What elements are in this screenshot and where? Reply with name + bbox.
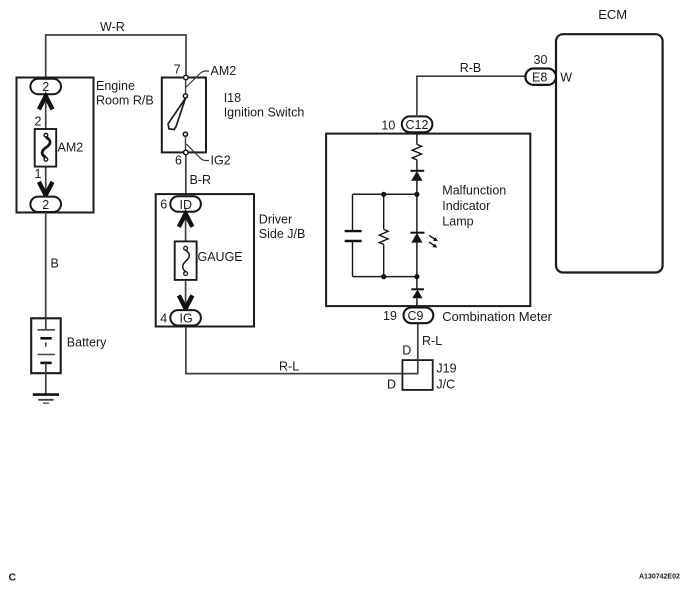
junction block Driver Side J/B <box>156 194 254 326</box>
svg-text:Malfunction: Malfunction <box>442 183 506 197</box>
meter main vertical wire <box>416 133 418 307</box>
svg-text:6: 6 <box>160 198 167 212</box>
connector C9 pin 19 <box>383 307 433 323</box>
label Engine Room R/B <box>96 79 154 108</box>
resistor R1 (series) <box>412 144 421 159</box>
switch lower contact <box>183 132 187 136</box>
svg-text:Side J/B: Side J/B <box>259 227 306 241</box>
figure index C <box>9 572 17 584</box>
svg-text:A130742E02: A130742E02 <box>639 574 680 581</box>
svg-text:30: 30 <box>534 53 548 67</box>
svg-text:Lamp: Lamp <box>442 215 473 229</box>
wire R-L from J/B to J/C <box>186 327 418 374</box>
svg-text:C12: C12 <box>406 118 429 132</box>
svg-text:C9: C9 <box>408 309 424 323</box>
svg-text:GAUGE: GAUGE <box>198 250 243 264</box>
connector E8 pin 30 <box>525 53 556 85</box>
junction connector J19 J/C <box>402 360 432 390</box>
svg-text:R-L: R-L <box>422 334 442 348</box>
connector C12 pin 10 <box>381 116 432 132</box>
svg-text:Ignition Switch: Ignition Switch <box>224 105 305 119</box>
junction block Engine Room R/B <box>17 78 94 213</box>
wire B battery feed <box>45 212 47 318</box>
svg-text:7: 7 <box>174 63 181 77</box>
label B-R <box>190 173 212 187</box>
label I18 Ignition Switch <box>224 91 305 120</box>
svg-text:AM2: AM2 <box>58 141 84 155</box>
connector IG pin 4 <box>160 310 201 325</box>
wire pin7 to pivot <box>185 80 187 94</box>
label W <box>560 70 572 84</box>
wire bottom of parallel branches <box>353 276 417 278</box>
svg-text:J19: J19 <box>436 362 456 376</box>
svg-text:4: 4 <box>160 311 167 325</box>
battery <box>31 318 61 373</box>
figure code A130742E02 <box>639 574 680 581</box>
diode D1 <box>410 171 424 181</box>
wire R-L meter to J/C <box>417 323 419 374</box>
fuse GAUGE <box>175 241 197 280</box>
svg-text:I18: I18 <box>224 91 241 105</box>
leader AM2 terminal <box>186 64 236 87</box>
wire node to left branch top <box>353 193 417 195</box>
label GAUGE fuse <box>198 250 243 264</box>
connector ID pin 6 <box>160 196 201 212</box>
label J19 J/C <box>436 362 456 392</box>
node junction resistor branch bottom <box>381 274 386 279</box>
label Driver Side J/B <box>259 213 306 242</box>
pin 6 of ignition switch <box>175 150 188 168</box>
svg-text:IG2: IG2 <box>211 153 231 167</box>
ground <box>33 395 59 404</box>
node junction top <box>414 192 419 197</box>
wire through Engine Room R/B <box>45 94 47 196</box>
label B <box>51 257 59 271</box>
LED lamp <box>410 233 424 243</box>
svg-text:1: 1 <box>35 167 42 181</box>
svg-text:AM2: AM2 <box>211 64 237 78</box>
svg-text:R-B: R-B <box>460 61 482 75</box>
switch blade <box>168 98 185 129</box>
svg-text:19: 19 <box>383 309 397 323</box>
svg-text:Battery: Battery <box>67 336 107 350</box>
pin 2 label <box>35 115 42 129</box>
wire lower contact to pin 6 <box>185 136 187 150</box>
svg-text:D: D <box>402 344 411 358</box>
label R-L vertical <box>422 334 442 348</box>
svg-text:D: D <box>387 377 396 391</box>
svg-text:ECM: ECM <box>598 7 627 22</box>
node junction bottom <box>414 274 419 279</box>
arrow up below connector <box>39 96 53 109</box>
pin D top label <box>402 344 411 358</box>
label AM2 fuse <box>58 141 84 155</box>
svg-text:Driver: Driver <box>259 213 292 227</box>
combination meter box <box>326 134 530 307</box>
ECM box <box>556 34 663 272</box>
node junction resistor branch top <box>381 192 386 197</box>
label W-R <box>100 20 125 34</box>
label Battery <box>67 336 107 350</box>
svg-text:J/C: J/C <box>436 377 455 391</box>
svg-text:2: 2 <box>35 115 42 129</box>
svg-text:Room R/B: Room R/B <box>96 94 154 108</box>
connector 2 (bottom of Engine Room R/B) <box>30 197 61 212</box>
svg-text:W: W <box>560 70 572 84</box>
svg-text:R-L: R-L <box>279 359 299 373</box>
pin D left label <box>387 377 396 391</box>
wire R-B meter to ECM <box>417 76 526 117</box>
svg-text:B: B <box>51 257 59 271</box>
wire battery to ground <box>45 373 47 394</box>
label Combination Meter <box>442 309 552 324</box>
svg-text:B-R: B-R <box>190 173 212 187</box>
pin 7 of ignition switch <box>174 63 188 80</box>
svg-text:IG: IG <box>180 311 193 325</box>
arrow down above IG <box>179 295 193 308</box>
svg-text:C: C <box>9 572 17 584</box>
pin 1 label <box>35 167 42 181</box>
resistor R2 (parallel) <box>379 194 388 276</box>
svg-text:W-R: W-R <box>100 20 125 34</box>
label Malfunction Indicator Lamp <box>442 183 506 228</box>
svg-text:Indicator: Indicator <box>442 199 490 213</box>
label R-B <box>460 61 482 75</box>
wire B-R ignition switch to J/B <box>185 155 187 194</box>
connector 2 (top of Engine Room R/B) <box>30 79 61 94</box>
wire W-R top run <box>46 35 186 78</box>
svg-text:Combination Meter: Combination Meter <box>442 309 552 324</box>
wire through Driver Side J/B <box>185 212 187 310</box>
capacitor C1 <box>345 194 362 276</box>
switch pivot contact <box>183 94 187 98</box>
arrow down above bottom connector <box>39 182 53 195</box>
svg-text:6: 6 <box>175 154 182 168</box>
leader IG2 terminal <box>186 144 230 167</box>
arrow up below ID <box>179 214 193 227</box>
switch I18 ignition switch box <box>162 78 206 153</box>
label R-L horizontal <box>279 359 299 373</box>
fuse AM2 <box>35 129 57 167</box>
label ECM <box>598 7 627 22</box>
LED light arrows <box>429 235 438 247</box>
svg-text:2: 2 <box>42 198 49 212</box>
svg-text:Engine: Engine <box>96 79 135 93</box>
diode D2 <box>411 289 424 298</box>
svg-text:E8: E8 <box>532 70 547 84</box>
svg-text:10: 10 <box>381 118 395 132</box>
